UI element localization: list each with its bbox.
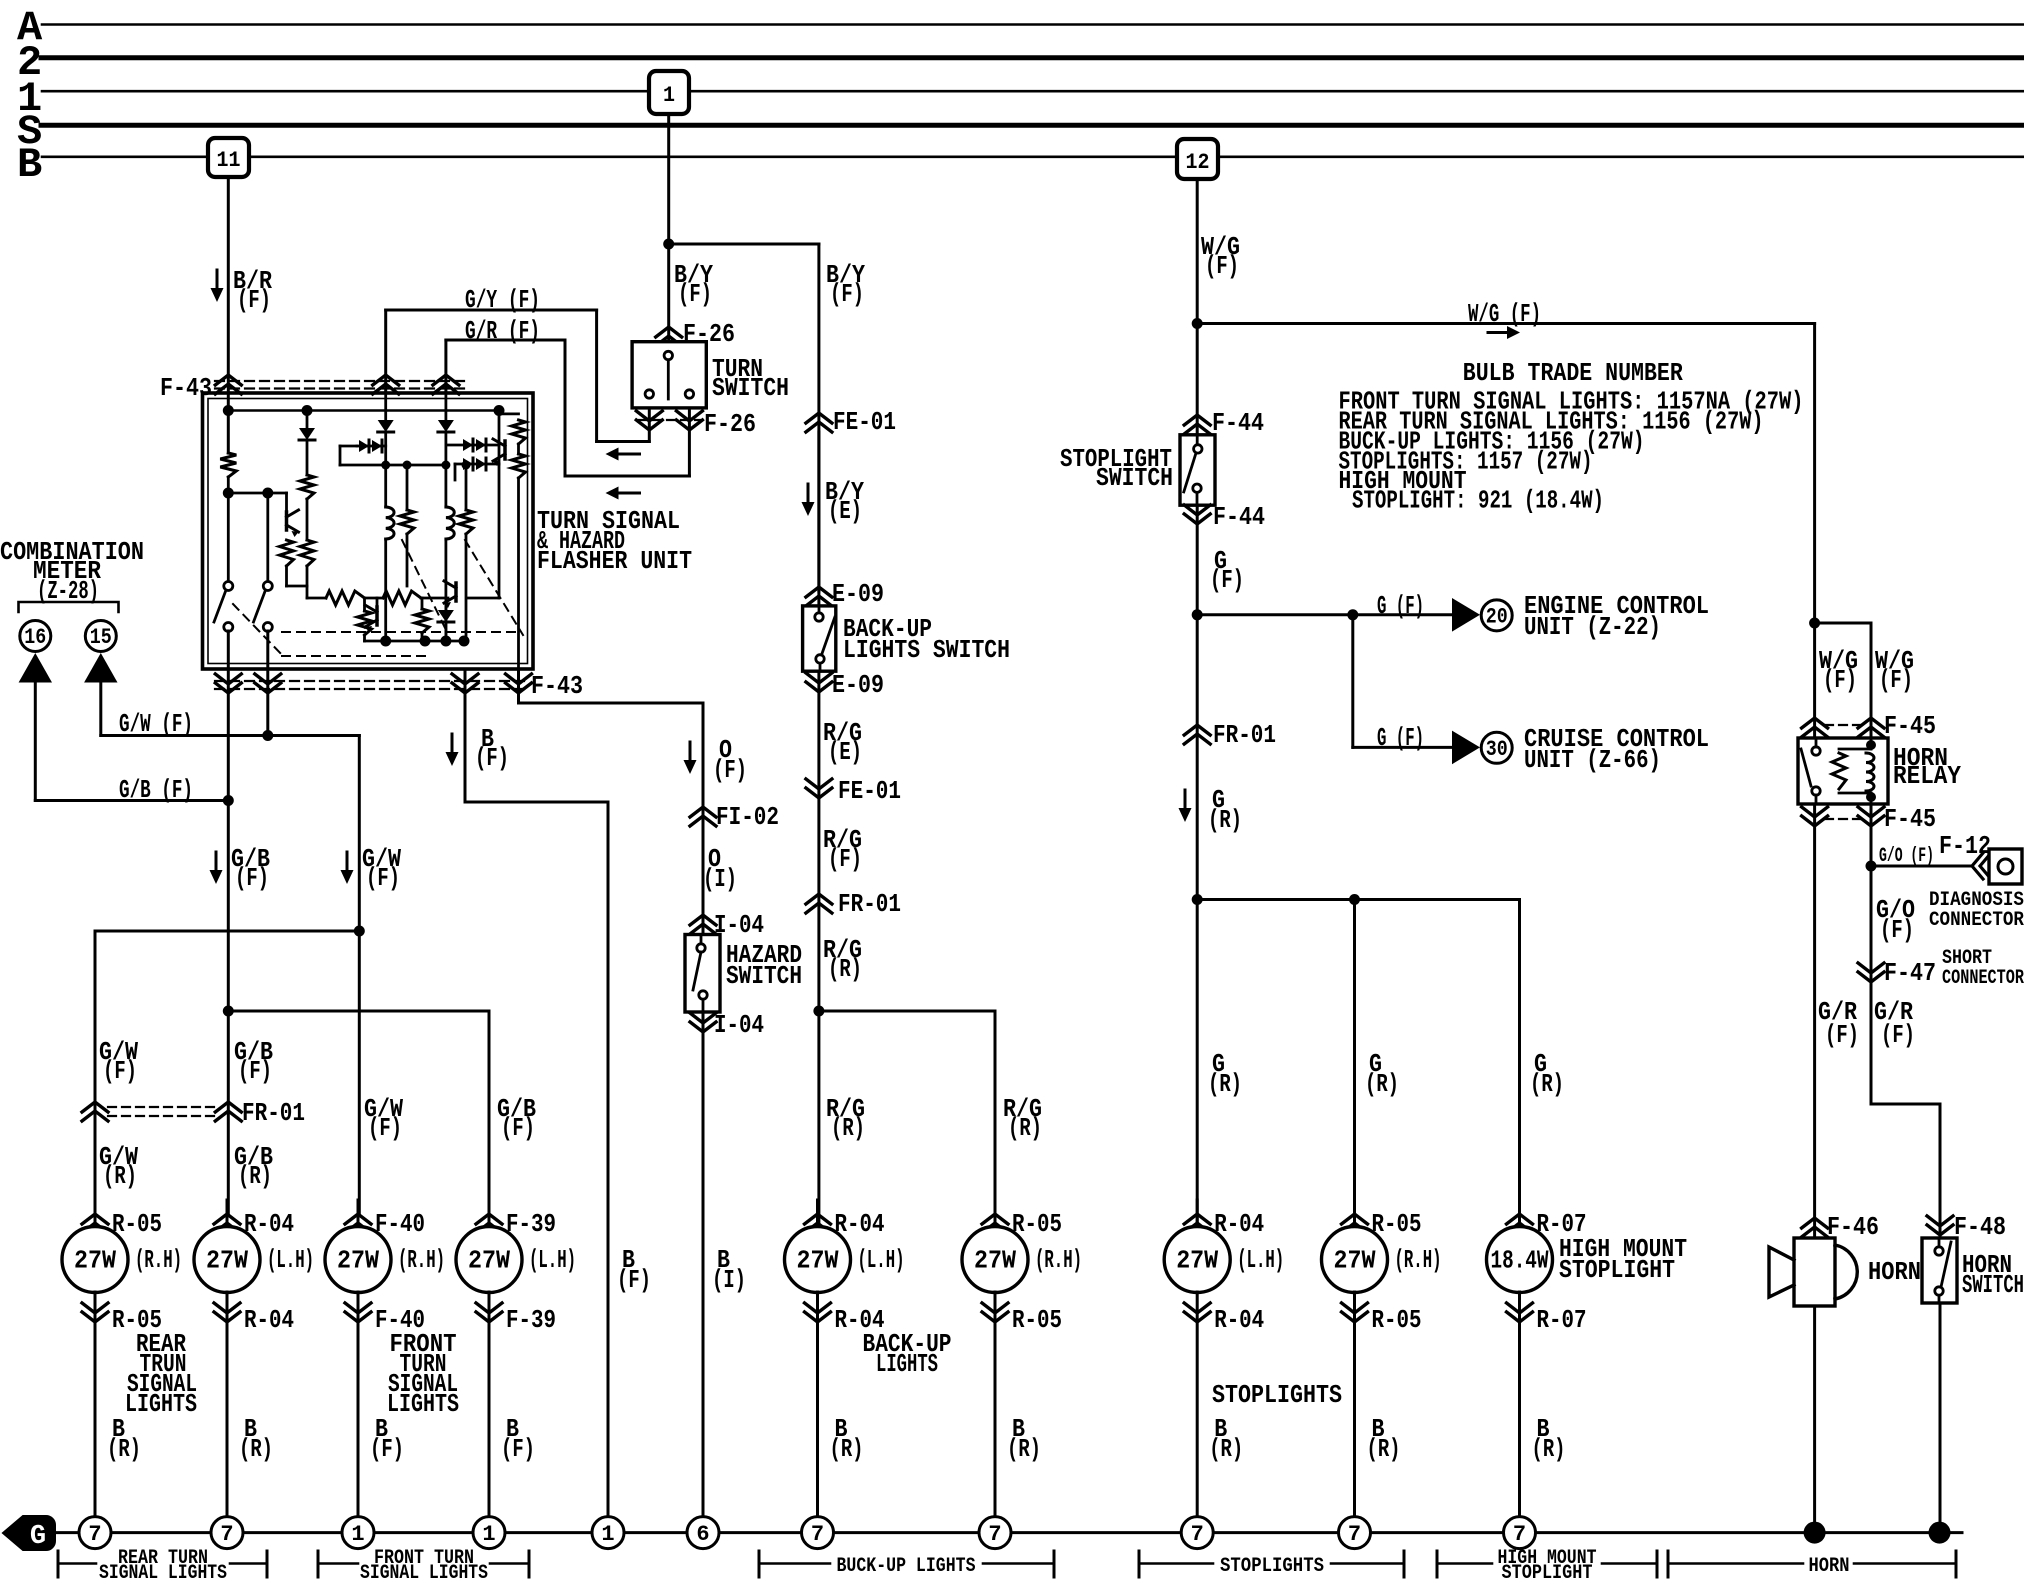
- svg-text:16: 16: [24, 625, 46, 650]
- svg-text:B: B: [17, 141, 42, 189]
- node: [1192, 894, 1203, 905]
- node 7: [979, 1517, 1011, 1549]
- switch arm: [822, 617, 835, 655]
- svg-text:HORN: HORN: [1809, 1555, 1850, 1578]
- bulb 27W (L.H): [456, 1227, 522, 1293]
- node: [813, 1006, 824, 1017]
- switch contact: [697, 944, 705, 952]
- svg-text:(L.H): (L.H): [267, 1245, 314, 1275]
- svg-text:27W: 27W: [1334, 1246, 1376, 1276]
- resistor (horn relay): [1832, 753, 1846, 789]
- svg-text:FLASHER UNIT: FLASHER UNIT: [537, 546, 692, 576]
- svg-text:(F): (F): [1210, 565, 1244, 595]
- dashed link: [465, 540, 523, 635]
- svg-text:(L.H): (L.H): [529, 1245, 576, 1275]
- node 1: [473, 1517, 505, 1549]
- connector FI-02: [690, 807, 716, 826]
- connector F-43 (top row): [215, 380, 470, 382]
- node: [262, 730, 273, 741]
- connector F-39: [476, 1303, 502, 1322]
- junction: [1804, 1522, 1826, 1544]
- svg-text:7: 7: [1191, 1522, 1204, 1547]
- svg-text:6: 6: [696, 1522, 709, 1547]
- horn switch box: [1922, 1238, 1957, 1303]
- diode (flasher D3): [438, 420, 454, 432]
- svg-text:(F): (F): [366, 863, 400, 893]
- svg-text:(L.H): (L.H): [858, 1245, 905, 1275]
- connector F-40: [357, 1200, 360, 1227]
- svg-text:G/R (F): G/R (F): [465, 316, 540, 346]
- svg-text:(F): (F): [617, 1265, 651, 1295]
- dashed link: [233, 604, 285, 658]
- svg-text:LIGHTS SWITCH: LIGHTS SWITCH: [843, 635, 1010, 665]
- terminal 15 to combination meter: [85, 621, 116, 652]
- svg-text:27W: 27W: [797, 1246, 839, 1276]
- diagnosis connector box: [1989, 849, 2022, 884]
- node: [663, 239, 674, 250]
- wire W/G from connector 12: [1196, 179, 1199, 435]
- wire: [340, 464, 446, 467]
- wire G/Y (F): [384, 310, 387, 393]
- bracket HORN: [1667, 1551, 1670, 1577]
- svg-text:R-05: R-05: [1012, 1305, 1062, 1335]
- dashed link: [402, 540, 448, 634]
- switch contact (flasher S2): [263, 582, 272, 591]
- svg-text:STOPLIGHT: 921 (18.4W): STOPLIGHT: 921 (18.4W): [1352, 486, 1604, 516]
- svg-text:27W: 27W: [74, 1246, 116, 1276]
- svg-text:F-45: F-45: [1884, 711, 1936, 741]
- wire B (F) from flasher: [464, 669, 467, 802]
- svg-text:LIGHTS: LIGHTS: [387, 1389, 459, 1419]
- connector R-07: [1518, 1200, 1521, 1227]
- flow arrow down: [807, 484, 810, 503]
- wire: [266, 493, 269, 582]
- svg-text:SWITCH: SWITCH: [1962, 1270, 2024, 1300]
- bulb 27W (R.H): [962, 1227, 1028, 1293]
- resistor (flasher R11): [363, 598, 366, 611]
- svg-text:UNIT (Z-22): UNIT (Z-22): [1524, 612, 1661, 642]
- svg-text:(F): (F): [828, 844, 862, 874]
- svg-text:(R): (R): [1532, 1434, 1566, 1464]
- resistor (flasher R3): [300, 475, 314, 499]
- svg-text:STOPLIGHTS: STOPLIGHTS: [1220, 1555, 1324, 1578]
- connector E-09: [806, 587, 832, 606]
- svg-text:R-05: R-05: [1372, 1209, 1422, 1239]
- wire B (I): [702, 1012, 705, 1032]
- resistor (flasher R7): [512, 420, 526, 444]
- svg-text:(R): (R): [239, 1434, 273, 1464]
- svg-text:F-26: F-26: [704, 409, 756, 439]
- svg-text:(R): (R): [1365, 1069, 1399, 1099]
- wire: [444, 432, 447, 507]
- connector R-04: [816, 1200, 819, 1227]
- bus line A: [42, 23, 2024, 26]
- connector F-44: [1184, 415, 1210, 434]
- svg-text:7: 7: [220, 1522, 233, 1547]
- svg-text:G (F): G (F): [1377, 723, 1424, 753]
- svg-text:SWITCH: SWITCH: [712, 373, 789, 403]
- wire branch to RH back-up: [819, 1010, 995, 1013]
- svg-text:RELAY: RELAY: [1893, 761, 1961, 791]
- svg-text:SWITCH: SWITCH: [726, 961, 802, 991]
- bulb 18.4W None: [1487, 1227, 1553, 1293]
- flasher internal top bus: [228, 409, 499, 412]
- diode pair (flasher D6): [455, 463, 499, 466]
- svg-text:(R): (R): [828, 954, 862, 984]
- svg-text:E-09: E-09: [832, 670, 884, 700]
- bracket FRONT TURN SIGNAL LIGHTS: [317, 1551, 320, 1577]
- junction: [1929, 1522, 1951, 1544]
- node 7: [1339, 1517, 1371, 1549]
- svg-text:R-04: R-04: [835, 1209, 885, 1239]
- svg-text:(I): (I): [712, 1265, 746, 1295]
- wire horn to ground: [1813, 1306, 1816, 1533]
- flow arrow down: [1184, 790, 1187, 809]
- node 7: [79, 1517, 111, 1549]
- wire: [498, 464, 501, 598]
- arrow to engine control unit: [1452, 598, 1480, 632]
- svg-text:(R): (R): [1208, 805, 1242, 835]
- switch contact: [1935, 1287, 1943, 1295]
- wire G (F): [1196, 505, 1199, 1227]
- svg-text:1: 1: [351, 1522, 364, 1547]
- svg-text:(R.H): (R.H): [398, 1245, 445, 1275]
- horn relay box: [1798, 738, 1888, 804]
- flow arrow left: [618, 453, 640, 456]
- terminal 30 cruise control unit: [1481, 732, 1512, 763]
- node: [1866, 861, 1877, 872]
- coil (flasher L2): [446, 507, 454, 539]
- node: [1349, 894, 1360, 905]
- bus line B: [42, 156, 208, 159]
- svg-text:F-12: F-12: [1939, 831, 1991, 861]
- wire: [306, 499, 309, 540]
- node 1: [342, 1517, 374, 1549]
- node 7: [802, 1517, 834, 1549]
- svg-text:(F): (F): [103, 1056, 137, 1086]
- connector E-09 (below): [806, 673, 832, 692]
- svg-text:FR-01: FR-01: [838, 889, 901, 919]
- wire to ground bus: [816, 1292, 819, 1517]
- connector R-04: [214, 1303, 240, 1322]
- wire to cruise control: [1351, 615, 1354, 748]
- diode pair (flasher D4): [357, 445, 386, 448]
- svg-text:15: 15: [90, 625, 112, 650]
- svg-text:BULB TRADE NUMBER: BULB TRADE NUMBER: [1463, 358, 1683, 388]
- node 7: [1181, 1517, 1213, 1549]
- bus line 2: [41, 55, 2024, 60]
- svg-text:R-04: R-04: [244, 1209, 294, 1239]
- svg-text:HORN: HORN: [1868, 1257, 1921, 1287]
- svg-text:27W: 27W: [1176, 1246, 1218, 1276]
- connector F-47 short connector: [1858, 963, 1884, 982]
- wire G/Y into flasher: [384, 393, 387, 420]
- svg-text:R-04: R-04: [1214, 1305, 1264, 1335]
- wire to control units: [1197, 613, 1452, 616]
- svg-text:(F): (F): [713, 755, 747, 785]
- dashed link: [282, 655, 430, 657]
- svg-text:20: 20: [1486, 604, 1508, 629]
- connector R-05: [82, 1303, 108, 1322]
- relay switch arm: [1801, 749, 1811, 786]
- node: [1809, 618, 1820, 629]
- svg-text:E-09: E-09: [832, 579, 884, 609]
- svg-text:LIGHTS: LIGHTS: [125, 1389, 197, 1419]
- resistor (flasher R10): [365, 597, 384, 600]
- svg-text:F-40: F-40: [375, 1209, 425, 1239]
- wire: [285, 566, 288, 586]
- wire branch: [1815, 622, 1871, 625]
- svg-text:(R): (R): [238, 1161, 272, 1191]
- svg-text:7: 7: [88, 1522, 101, 1547]
- bus line 1: [42, 90, 649, 93]
- svg-text:G/O (F): G/O (F): [1879, 845, 1934, 868]
- svg-text:I-04: I-04: [714, 1010, 764, 1040]
- flasher unit box: [203, 393, 534, 669]
- connector FR-01 (dashed pair): [108, 1106, 215, 1108]
- wire: [499, 412, 519, 415]
- svg-text:(F): (F): [1880, 915, 1914, 945]
- transistor (flasher Q4): [503, 441, 507, 459]
- svg-text:(F): (F): [1881, 1020, 1915, 1050]
- svg-text:(R): (R): [1008, 1113, 1042, 1143]
- svg-text:27W: 27W: [974, 1246, 1016, 1276]
- diode (flasher D1): [299, 428, 315, 440]
- connector R-05: [1342, 1303, 1368, 1322]
- bulb 27W (R.H): [62, 1227, 128, 1293]
- relay switch contact: [1812, 747, 1820, 755]
- wire G/R (F): [444, 340, 447, 393]
- wire branch to front LH: [228, 1010, 489, 1013]
- resistor (flasher R8): [512, 454, 526, 478]
- svg-text:(R.H): (R.H): [135, 1245, 182, 1275]
- arrow into terminal 16: [19, 653, 52, 683]
- connector (diagnosis side): [1972, 853, 1991, 879]
- wire B/Y (F) branch: [669, 243, 819, 246]
- flow arrow left: [618, 492, 640, 495]
- svg-text:(F): (F): [1823, 665, 1857, 695]
- wire O (F) from flasher: [517, 669, 520, 703]
- diode pair (flasher D5): [446, 444, 499, 447]
- bracket HIGH MOUNT STOPLIGHT: [1436, 1551, 1439, 1577]
- svg-text:F-39: F-39: [506, 1209, 556, 1239]
- wire: [498, 411, 501, 446]
- connector R-05: [994, 1200, 997, 1227]
- connector R-04: [1196, 1200, 1199, 1227]
- svg-text:CONNECTOR: CONNECTOR: [1942, 967, 2024, 990]
- svg-text:(I): (I): [703, 864, 737, 894]
- wire B/R from connector 11: [227, 177, 230, 453]
- node 7: [211, 1517, 243, 1549]
- bracket: [19, 602, 119, 612]
- svg-text:(F): (F): [830, 279, 864, 309]
- node: [223, 795, 234, 806]
- svg-text:G/W (F): G/W (F): [119, 709, 193, 739]
- connector F-43 (bottom row): [215, 680, 530, 682]
- wire G/W (F) to meter 15: [99, 683, 102, 736]
- switch contact (flasher S1): [224, 582, 233, 591]
- svg-text:(F): (F): [501, 1113, 535, 1143]
- transistor (flasher Q1): [285, 512, 289, 530]
- svg-text:F-44: F-44: [1212, 408, 1264, 438]
- wire to ground bus: [357, 1292, 360, 1517]
- coil (flasher L1): [386, 507, 394, 539]
- svg-text:(R): (R): [1367, 1434, 1401, 1464]
- resistor (flasher R6): [465, 465, 468, 510]
- resistor (flasher R12): [421, 598, 424, 609]
- svg-text:F-48: F-48: [1954, 1212, 2006, 1242]
- wire: [228, 492, 286, 495]
- coil (horn relay): [1866, 753, 1874, 791]
- wire to ground bus: [488, 1292, 491, 1517]
- switch contact: [1194, 445, 1202, 453]
- connector FR-01: [1184, 725, 1210, 744]
- ground bus wire: [55, 1531, 1962, 1534]
- node 7: [1504, 1517, 1536, 1549]
- svg-text:(E): (E): [828, 496, 862, 526]
- flow arrow down: [346, 852, 349, 871]
- svg-text:(R): (R): [830, 1434, 864, 1464]
- connector F-48: [1927, 1216, 1953, 1235]
- wire B/Y (E): [817, 432, 820, 591]
- wire: [1353, 900, 1356, 1215]
- terminal 20 engine control unit: [1481, 600, 1512, 631]
- horn symbol: [1794, 1238, 1835, 1306]
- relay switch contact: [1812, 787, 1820, 795]
- flow arrow down: [215, 852, 218, 871]
- svg-text:FR-01: FR-01: [1213, 720, 1276, 750]
- wire G/R into flasher: [444, 393, 447, 420]
- wire: [444, 539, 447, 641]
- svg-text:(R.H): (R.H): [1395, 1245, 1442, 1275]
- node: [1192, 609, 1203, 620]
- svg-text:11: 11: [217, 148, 241, 173]
- svg-text:R-05: R-05: [1372, 1305, 1422, 1335]
- node 1: [592, 1517, 624, 1549]
- switch contact: [1935, 1247, 1943, 1255]
- wire to diagnosis/horn switch: [1870, 804, 1873, 1104]
- svg-text:G (F): G (F): [1377, 591, 1424, 621]
- svg-text:(E): (E): [828, 737, 862, 767]
- connector R-05: [1353, 1200, 1356, 1227]
- connector FR-01: [806, 894, 832, 913]
- connector R-04: [805, 1303, 831, 1322]
- switch contact: [815, 613, 823, 621]
- node 6: [687, 1517, 719, 1549]
- svg-text:1: 1: [663, 83, 675, 108]
- svg-text:STOPLIGHT: STOPLIGHT: [1559, 1255, 1675, 1285]
- svg-text:(R): (R): [107, 1434, 141, 1464]
- connector R-04: [1184, 1303, 1210, 1322]
- switch arm: [1941, 1242, 1951, 1287]
- svg-text:UNIT (Z-66): UNIT (Z-66): [1524, 745, 1661, 775]
- resistor (flasher R1): [220, 453, 236, 477]
- svg-text:(R): (R): [1530, 1069, 1564, 1099]
- svg-text:27W: 27W: [337, 1246, 379, 1276]
- node: [1347, 609, 1358, 620]
- svg-text:(F): (F): [1205, 251, 1239, 281]
- svg-text:7: 7: [811, 1522, 824, 1547]
- svg-text:(F): (F): [1825, 1020, 1859, 1050]
- svg-text:W/G (F): W/G (F): [1468, 299, 1541, 329]
- svg-text:(L.H): (L.H): [1237, 1245, 1284, 1275]
- wire R/G (E): [817, 671, 820, 1227]
- svg-text:(R): (R): [1007, 1434, 1041, 1464]
- switch contact: [685, 390, 693, 398]
- bulb 27W (R.H): [1322, 1227, 1388, 1293]
- svg-text:(R): (R): [103, 1161, 137, 1191]
- flow arrow down: [216, 270, 219, 289]
- wire B/Y from connector 1: [667, 114, 670, 342]
- transistor (flasher Q2): [375, 607, 379, 625]
- switch contact: [645, 390, 653, 398]
- svg-text:7: 7: [1348, 1522, 1361, 1547]
- connector F-40: [345, 1303, 371, 1322]
- wire: [306, 566, 309, 598]
- svg-text:FR-01: FR-01: [242, 1098, 305, 1128]
- connector F-46: [1802, 1218, 1828, 1237]
- svg-text:12: 12: [1186, 150, 1210, 175]
- switch arm: [1184, 453, 1196, 492]
- svg-text:27W: 27W: [206, 1246, 248, 1276]
- node: [354, 926, 365, 937]
- flow arrow down: [689, 742, 692, 761]
- svg-text:SWITCH: SWITCH: [1096, 463, 1173, 493]
- wire: [306, 411, 309, 429]
- bulb 27W (L.H): [785, 1227, 851, 1293]
- wire to ground bus: [1196, 1292, 1199, 1517]
- connector R-05: [94, 1200, 97, 1227]
- resistor (flasher R4): [300, 540, 314, 566]
- wire to ground bus: [1353, 1292, 1356, 1517]
- resistor (flasher R5): [406, 465, 409, 510]
- svg-text:BUCK-UP LIGHTS: BUCK-UP LIGHTS: [837, 1555, 976, 1578]
- bracket REAR TURN SIGNAL LIGHTS: [57, 1551, 60, 1577]
- svg-text:G: G: [30, 1522, 46, 1552]
- svg-text:G/B (F): G/B (F): [119, 775, 193, 805]
- svg-text:(F): (F): [370, 1434, 404, 1464]
- svg-text:(F): (F): [475, 743, 509, 773]
- connector F-45: [1825, 724, 1862, 726]
- svg-text:(F): (F): [237, 285, 271, 315]
- svg-text:R-05: R-05: [1012, 1209, 1062, 1239]
- connector FE-01: [806, 779, 832, 798]
- svg-text:7: 7: [988, 1522, 1001, 1547]
- svg-text:(R.H): (R.H): [1035, 1245, 1082, 1275]
- connector box 12: [1177, 139, 1218, 179]
- connector FE-01: [806, 413, 832, 432]
- bulb 27W (L.H): [194, 1227, 260, 1293]
- svg-text:R-04: R-04: [244, 1305, 294, 1335]
- bus line S: [41, 123, 2024, 128]
- svg-text:FE-01: FE-01: [833, 407, 896, 437]
- svg-text:F-44: F-44: [1213, 502, 1265, 532]
- wire to diagnosis connector: [1871, 865, 1971, 868]
- connector box 11: [208, 138, 249, 177]
- svg-text:27W: 27W: [468, 1246, 510, 1276]
- svg-text:SIGNAL LIGHTS: SIGNAL LIGHTS: [99, 1562, 227, 1584]
- svg-text:(F): (F): [235, 863, 269, 893]
- turn switch box: [632, 342, 706, 408]
- relay coil wiring: [1839, 748, 1871, 751]
- arrow to cruise control unit: [1452, 731, 1480, 765]
- connector F-26: [656, 327, 682, 346]
- svg-text:(F): (F): [1879, 665, 1913, 695]
- hazard switch box: [685, 935, 720, 1013]
- flow arrow down: [451, 734, 454, 753]
- wire to ground bus: [1518, 1292, 1521, 1517]
- wire to ground bus: [226, 1292, 229, 1517]
